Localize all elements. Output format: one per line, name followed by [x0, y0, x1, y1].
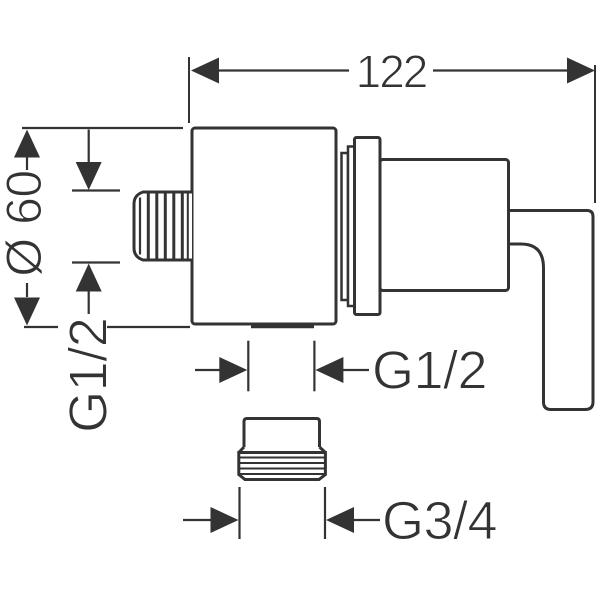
G3/4 dim left extension line — [238, 487, 240, 539]
dia 60 top arrowhead — [14, 130, 40, 158]
dia 60 upper stub — [26, 156, 28, 170]
svg-text:G1/2: G1/2 — [372, 341, 487, 401]
G3/4 dim right arrowhead — [326, 507, 354, 533]
cartridge cylinder — [380, 160, 509, 291]
dim 122 left extension line — [188, 57, 190, 123]
dia 60 top extension line — [22, 127, 183, 129]
dim 122 left arrowhead — [191, 58, 219, 84]
svg-text:G3/4: G3/4 — [382, 491, 497, 551]
flange ring 3 — [355, 138, 381, 315]
G1/2 left dim lower tick — [72, 261, 120, 263]
G1/2 left dim upper leader — [88, 130, 90, 164]
hose adapter flare right — [320, 447, 326, 453]
hose adapter flare left — [239, 447, 244, 453]
G1/2 bottom dim right leader — [342, 369, 369, 371]
dia 60 bottom extension line right part — [107, 326, 190, 328]
inlet thread lines — [140, 194, 188, 259]
G3/4 dim right leader — [354, 519, 380, 521]
G3/4 dim left leader — [183, 519, 212, 521]
svg-text:122: 122 — [356, 46, 427, 98]
threaded inlet connector — [134, 192, 192, 260]
hose adapter top — [244, 419, 320, 448]
valve body bottom outlet step — [251, 325, 314, 329]
dim 122 line left segment — [216, 69, 349, 71]
dia 60 bottom arrowhead — [14, 298, 40, 326]
G1/2 bottom dim right extension line — [313, 341, 315, 392]
dim 122 right extension line — [594, 65, 596, 203]
dia 60 lower stub — [26, 283, 28, 297]
G1/2 left dim lower leader — [88, 290, 90, 314]
lever handle — [508, 211, 593, 410]
G1/2 left dim lower arrowhead — [76, 264, 102, 292]
valve body — [192, 128, 336, 324]
G3/4 dim left arrowhead — [211, 507, 239, 533]
G1/2 left dim upper arrowhead — [76, 162, 102, 190]
dim 122 right arrowhead — [567, 58, 595, 84]
flange ring 2 — [348, 147, 355, 307]
G1/2 bottom dim right arrowhead — [315, 357, 343, 383]
svg-text:Ø 60: Ø 60 — [0, 170, 52, 276]
hose adapter threaded block — [239, 453, 326, 480]
G1/2 bottom dim left extension line — [247, 341, 249, 392]
G1/2 bottom dim left arrowhead — [219, 357, 247, 383]
hose adapter thread lines — [239, 458, 326, 475]
G1/2 left dim upper tick — [72, 189, 120, 191]
svg-text:G1/2: G1/2 — [59, 318, 119, 433]
flange ring 1 — [342, 153, 349, 300]
dia 60 bottom extension line left part — [24, 326, 58, 328]
G3/4 dim right extension line — [324, 487, 326, 539]
G1/2 bottom dim left leader — [195, 369, 222, 371]
dim 122 line right segment — [433, 69, 572, 71]
